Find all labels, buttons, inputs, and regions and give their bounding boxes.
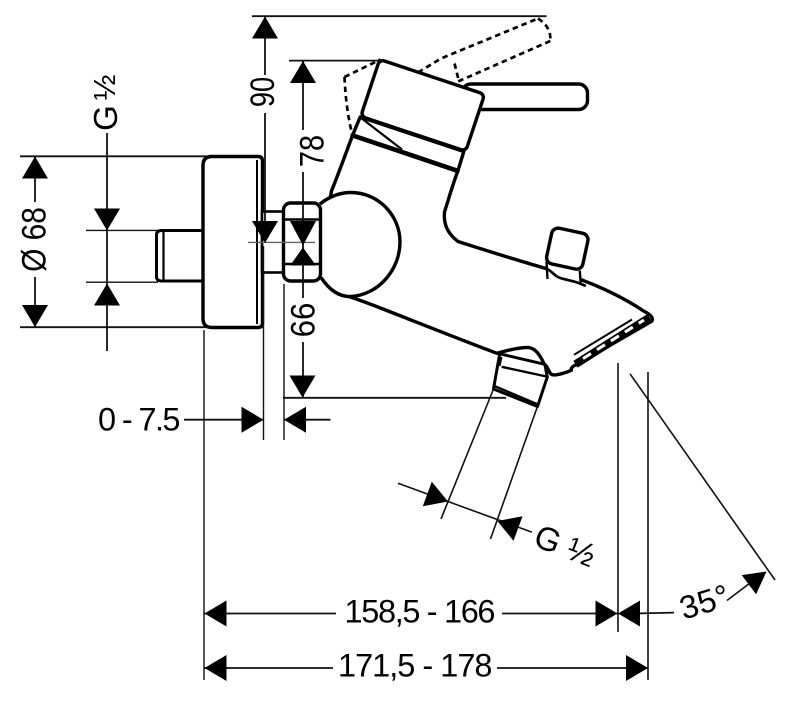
centerline (gray)	[248, 241, 315, 243]
35 degree leader	[727, 582, 752, 601]
svg-text:Ø 68: Ø 68	[15, 207, 53, 272]
handle lever	[462, 84, 588, 110]
arrow 90 bottom	[252, 221, 278, 243]
dashed lever end cap	[538, 19, 550, 42]
extension line x=284	[283, 284, 285, 440]
dim 90 reference line top	[252, 15, 547, 17]
arrow 158 left	[205, 601, 227, 627]
shower hose outlet	[494, 354, 548, 407]
dim G1/2 bottom line	[398, 483, 532, 532]
dim 78 reference line	[289, 60, 383, 62]
arrow G1/2 up	[94, 284, 120, 306]
wall nipple (threaded pipe)	[157, 231, 205, 282]
arrow 0-7.5 right	[242, 407, 264, 433]
faucet body (neck, spout, bottom)	[329, 117, 653, 375]
arrow 0-7.5 left	[284, 407, 306, 433]
dim G1/2 top extension lines	[86, 230, 158, 282]
dim G1/2 bottom extension line 1	[441, 389, 494, 519]
arrow 78 top	[290, 61, 316, 83]
dim G1/2 top line	[106, 133, 108, 351]
35 degree line	[630, 374, 775, 580]
dim 90 line	[264, 17, 266, 240]
dim O68 reference lines	[20, 156, 208, 327]
dim O68 line	[34, 157, 36, 328]
svg-text:90: 90	[243, 77, 282, 107]
dim 66 reference line bottom	[283, 397, 506, 399]
extension line x=204 (plate edge)	[203, 330, 205, 680]
dashed lever bottom	[458, 41, 550, 82]
arrow G1/2 diag upper	[423, 482, 448, 506]
nipple cap line	[162, 232, 164, 281]
extension line x=618	[617, 363, 619, 632]
union nut	[284, 203, 321, 281]
diverter knob stem	[544, 259, 586, 286]
arrow G1/2 diag lower	[497, 516, 522, 540]
svg-text:66: 66	[283, 303, 322, 338]
arrow 90 top	[252, 17, 278, 39]
dashed cap top-left edge	[345, 60, 381, 78]
arrow 35 leader	[742, 572, 767, 595]
outlet notch	[500, 357, 502, 366]
aerator slots (white windows)	[583, 320, 644, 359]
dim 158,5-166 line	[205, 612, 675, 615]
arrow 171 right	[626, 655, 648, 681]
arrow G1/2 down	[94, 209, 120, 231]
collar joint thick line	[353, 135, 458, 170]
svg-text:0 - 7.5: 0 - 7.5	[98, 402, 181, 438]
svg-text:171,5 - 178: 171,5 - 178	[338, 648, 493, 684]
arrow 171 left	[205, 655, 227, 681]
dashed cap left edge	[345, 77, 353, 135]
connector stub	[262, 212, 284, 273]
wall plate (escutcheon)	[203, 157, 263, 328]
arrow 78 bottom (hourglass top)	[290, 221, 316, 246]
extension line x=648	[647, 372, 649, 680]
diverter knob	[545, 227, 589, 270]
ball joint sphere	[320, 193, 400, 297]
outlet collar line	[502, 367, 547, 377]
dim 171,5-178 line	[205, 667, 649, 669]
dim 0-7.5 line	[184, 419, 331, 421]
aerator band at spout tip	[574, 318, 650, 365]
svg-text:78: 78	[292, 135, 331, 167]
dim 78 line	[302, 61, 304, 243]
arrow 158 right (bowtie)	[596, 601, 618, 627]
extension line x=263.5	[263, 246, 265, 440]
nut facet lines	[285, 220, 320, 265]
aerator plate top thin line	[574, 320, 632, 355]
dim G1/2 bottom extension line 2	[491, 405, 539, 539]
svg-text:G: G	[87, 105, 124, 131]
dashed lever left cap	[455, 64, 460, 82]
dashed handle (raised position) lever top	[418, 19, 538, 73]
collar inner diagonal line	[361, 118, 403, 150]
outlet rim line	[495, 386, 537, 404]
svg-text:½: ½	[87, 74, 122, 100]
arrow 66 top (hourglass bottom)	[290, 248, 316, 266]
plate rim inner line	[256, 160, 258, 324]
svg-text:158,5 - 166: 158,5 - 166	[345, 594, 496, 630]
arrow O68 top	[22, 157, 48, 179]
arrow O68 bottom	[22, 305, 48, 327]
arrow 66 bottom	[290, 376, 316, 398]
handle cartridge cap	[361, 59, 485, 151]
dim 66 line	[302, 243, 304, 398]
